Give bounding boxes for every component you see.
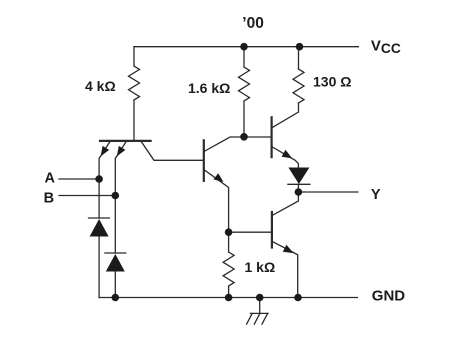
svg-text:4 kΩ: 4 kΩ [85, 78, 116, 94]
resistor R1 4k top lead [133, 47, 135, 66]
wire input A [59, 178, 99, 180]
resistor R2 1.6k zigzag [239, 67, 250, 101]
junction dot GND-R4 [225, 294, 233, 302]
wire B node down to clamp diode D2 [114, 196, 116, 254]
ground symbol bar [251, 312, 269, 314]
transistor Q4 base bar [271, 212, 273, 248]
clamp diode D1 triangle [90, 219, 109, 237]
wire D3 cathode to Y node [297, 184, 299, 192]
transistor Q1 collector wire to Q2 base [141, 142, 204, 161]
transistor Q4 emitter wire down to GND [273, 242, 298, 298]
wire GND rail [99, 297, 357, 299]
wire output Y [298, 191, 358, 193]
arrow Q1 emitter 1 [101, 146, 110, 157]
clamp diode D2 cathode bar [105, 252, 126, 254]
svg-text:130 Ω: 130 Ω [313, 74, 351, 90]
junction dot GND-Q4 [294, 294, 302, 302]
wire R1 bottom to Q1 base [133, 100, 135, 141]
resistor R4 1k top lead [228, 232, 230, 252]
resistor R2 1.6k top lead [243, 47, 245, 67]
wire R2 bottom to node P [243, 101, 245, 137]
junction dot GND-D2 [112, 294, 120, 302]
wire VCC rail [134, 46, 358, 48]
diode D3 cathode bar [288, 183, 310, 185]
arrow Q1 emitter 2 [117, 146, 126, 157]
svg-text:B: B [44, 190, 54, 206]
junction dot input B [112, 192, 120, 200]
junction dot node E [225, 228, 233, 236]
svg-text:GND: GND [372, 288, 406, 305]
svg-text:A: A [45, 170, 56, 186]
wire D1 anode down to GND rail [98, 237, 100, 298]
resistor R3 130 zigzag [293, 69, 304, 103]
junction dot VCC-R3 [296, 43, 304, 51]
wire D2 anode down to GND rail [114, 272, 116, 298]
clamp diode D2 triangle [106, 254, 125, 272]
junction dot VCC-R2 [240, 43, 248, 51]
transistor Q1 emitter 2 wire [115, 142, 126, 196]
wire R3 bottom to Q3 collector [272, 103, 298, 128]
arrow Q3 emitter [282, 150, 293, 159]
wire input B [59, 195, 115, 197]
svg-text:1.6 kΩ: 1.6 kΩ [188, 80, 230, 96]
transistor Q3 emitter wire into diode [272, 147, 298, 168]
svg-text:1 kΩ: 1 kΩ [245, 259, 276, 275]
junction dot input A [95, 175, 103, 183]
transistor Q1 emitter 1 wire [99, 142, 110, 180]
svg-text:Y: Y [371, 187, 381, 203]
resistor R4 1k zigzag [223, 252, 234, 286]
resistor R3 130 top lead [298, 47, 300, 69]
transistor Q2 emitter wire down to node E [204, 170, 228, 232]
wire node E to Q4 base [229, 231, 272, 233]
arrow Q2 emitter [214, 173, 224, 182]
resistor R1 4k zigzag [129, 66, 140, 100]
ground symbol hatch 2 [254, 313, 260, 324]
diode D3 triangle [288, 168, 309, 185]
ground symbol stem [259, 298, 261, 314]
transistor Q1 base bar [100, 140, 151, 142]
wire Y node down to Q4 collector [273, 192, 299, 215]
transistor Q2 collector wire to node P [204, 137, 271, 151]
wire R4 bottom to GND rail [228, 286, 230, 298]
svg-text:VCC: VCC [371, 37, 401, 56]
wire A node down to clamp diode D1 [98, 179, 100, 218]
junction dot node P [240, 133, 248, 141]
arrow Q4 emitter [283, 245, 294, 253]
svg-text:’00: ’00 [242, 15, 264, 32]
transistor Q3 base bar [271, 117, 273, 157]
transistor Q2 base bar [203, 140, 205, 181]
junction dot GND-sym [256, 294, 264, 302]
ground symbol hatch 1 [247, 313, 253, 324]
ground symbol hatch 3 [262, 313, 268, 324]
clamp diode D1 cathode bar [89, 217, 110, 219]
junction dot node Y [295, 188, 303, 196]
